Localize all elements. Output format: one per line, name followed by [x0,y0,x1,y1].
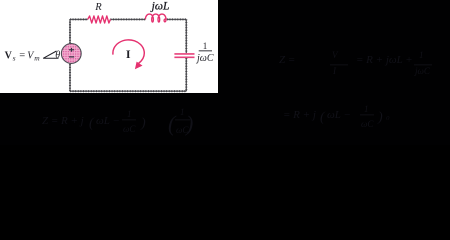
faint equation right line 2: = R + j(ωL − 1/ωC) [283,104,390,129]
wire left upper (source to corner) [69,19,71,43]
svg-text:R: R [94,2,102,13]
svg-text:= R + jωL +: = R + jωL + [356,54,413,66]
svg-text:jωC: jωC [414,66,431,76]
wire right lower (capacitor to corner) [185,58,187,91]
svg-text:1: 1 [127,109,132,119]
svg-text:θ: θ [55,50,60,61]
svg-text:1: 1 [419,50,424,60]
svg-text:₀: ₀ [386,109,390,121]
svg-text:I: I [126,47,131,61]
wire top (left corner to resistor) [70,18,88,20]
wire left lower (corner to source) [69,64,71,92]
svg-text:1: 1 [180,107,185,117]
resistor R [88,16,111,23]
svg-text:ωL −: ωL − [327,109,351,121]
wire bottom [70,90,186,92]
loop current arrow [113,40,144,63]
svg-text:I: I [332,66,337,76]
svg-text:): ) [140,116,146,131]
inductor jωL [145,14,167,22]
source label Vs = Vm∠θ [5,50,61,62]
svg-text:): ) [184,111,193,136]
svg-text:1: 1 [203,41,208,51]
svg-text:ωL −: ωL − [96,115,120,127]
svg-text:ωC: ωC [361,119,374,129]
voltage source Vs [61,44,81,64]
source plus polarity mark [69,48,74,52]
svg-text:= R + j: = R + j [283,109,316,121]
faint equation right line 1: Z = Vs/I = R + jωL + 1/jωC [279,50,432,76]
svg-text:Z = R + j: Z = R + j [42,115,84,127]
capacitor label 1/jωC [195,41,214,64]
svg-text:jωC: jωC [195,53,214,64]
source minus polarity mark [69,56,74,58]
svg-text:=: = [19,50,25,61]
wire top (resistor to inductor) [110,18,145,20]
svg-text:s: s [13,53,16,62]
svg-text:ωC: ωC [123,124,136,134]
svg-text:jωL: jωL [150,1,170,13]
wire top (inductor to right corner) [167,18,186,20]
svg-text:Z =: Z = [279,54,295,66]
white figure panel [0,0,218,93]
svg-text:V: V [332,50,339,60]
svg-text:(: ( [320,110,326,125]
svg-text:): ) [377,110,383,125]
faint equation bottom-left: Z = R + j(ωL − 1/ωC) [42,107,193,136]
svg-text:(: ( [89,116,95,131]
capacitor plates [174,53,194,55]
svg-text:m: m [34,53,40,62]
svg-text:V: V [5,50,13,61]
svg-text:1: 1 [364,104,369,114]
wire right upper (corner to capacitor) [185,19,187,53]
